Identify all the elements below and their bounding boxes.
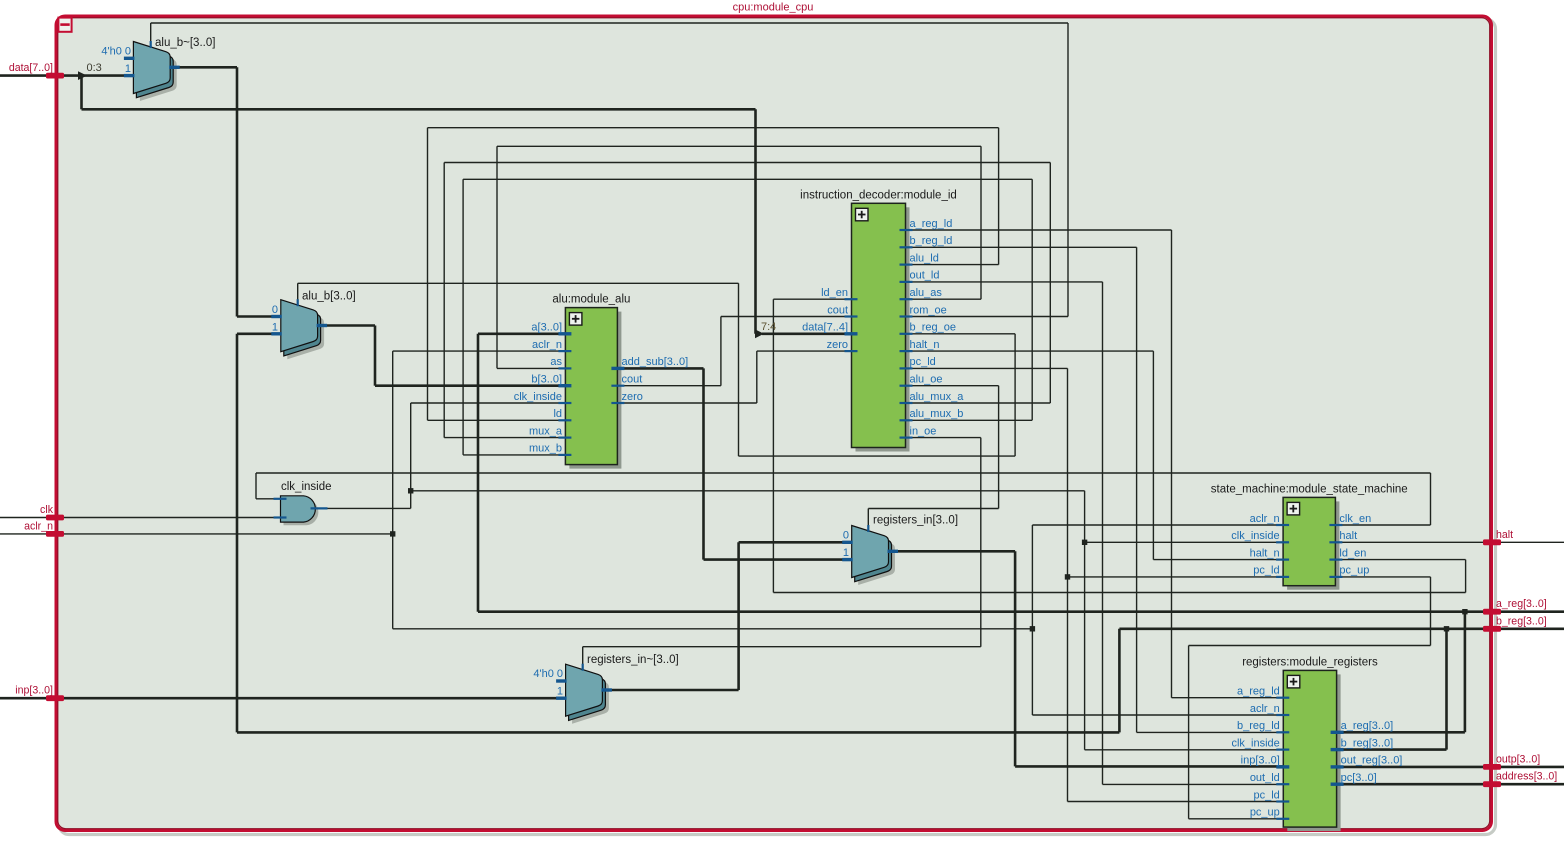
svg-text:clk: clk	[40, 504, 54, 516]
svg-text:b_reg[3..0]: b_reg[3..0]	[1341, 737, 1394, 749]
svg-text:0: 0	[272, 304, 278, 316]
junction a_reg port	[1462, 609, 1467, 614]
output port a_reg[3..0]	[1483, 609, 1501, 615]
collapse icon (minus box)	[58, 18, 71, 32]
svg-text:cout: cout	[827, 304, 848, 316]
wire clk_en : state_machine output feedback to clk_inside AND gate	[1335, 524, 1430, 526]
junction aclr_n at distribution column	[1030, 626, 1035, 631]
svg-text:aclr_n: aclr_n	[1250, 703, 1280, 715]
wire clk : input port to AND gate	[0, 517, 46, 519]
svg-text:a[3..0]: a[3..0]	[531, 322, 562, 334]
svg-text:out_ld: out_ld	[1250, 772, 1280, 784]
svg-text:1: 1	[125, 63, 131, 75]
svg-text:alu_mux_a: alu_mux_a	[910, 391, 965, 403]
svg-text:clk_inside: clk_inside	[514, 391, 562, 403]
module state_machine:module_state_machine	[1287, 501, 1339, 589]
svg-text:1: 1	[843, 547, 849, 559]
wire cout : ALU cout to decoder cout input	[617, 385, 721, 387]
svg-text:halt: halt	[1339, 530, 1357, 542]
pins of registers:module_registers	[1276, 697, 1289, 699]
svg-text:pc_ld: pc_ld	[1254, 789, 1280, 801]
junction clk_inside near gate	[408, 488, 413, 493]
wire b_reg[3..0] bus : registers output to alu_b mux input 1 and output port	[237, 332, 281, 335]
svg-text:aclr_n: aclr_n	[1250, 513, 1280, 525]
svg-text:1: 1	[557, 686, 563, 698]
wire ld_en : state_machine output to decoder ld_en input	[1335, 559, 1465, 561]
svg-text:b_reg_oe: b_reg_oe	[910, 322, 957, 334]
input port data[7..0]	[46, 73, 64, 79]
AND gate clk_inside	[284, 499, 319, 525]
svg-text:out_reg[3..0]: out_reg[3..0]	[1341, 755, 1403, 767]
arrow on data wire near port	[78, 71, 87, 80]
junction pc_ld	[1065, 574, 1070, 579]
svg-text:registers:module_registers: registers:module_registers	[1242, 656, 1378, 668]
svg-text:1: 1	[272, 321, 278, 333]
junction clk_inside near state_machine	[1082, 540, 1087, 545]
svg-text:outp[3..0]: outp[3..0]	[1496, 753, 1540, 765]
wire data[7..0] from port to alu_b~ mux and decoder	[0, 74, 46, 77]
svg-text:inp[3..0]: inp[3..0]	[15, 685, 53, 697]
svg-text:pc_up: pc_up	[1339, 565, 1369, 577]
wire address[3..0] : registers pc output to port	[1337, 783, 1483, 786]
svg-text:alu_oe: alu_oe	[910, 374, 943, 386]
svg-text:0: 0	[843, 530, 849, 542]
svg-text:a_reg_ld: a_reg_ld	[910, 218, 953, 230]
svg-text:registers_in~[3..0]: registers_in~[3..0]	[587, 654, 679, 666]
svg-text:as: as	[550, 356, 562, 368]
svg-text:halt_n: halt_n	[910, 339, 940, 351]
svg-text:a_reg[3..0]: a_reg[3..0]	[1496, 598, 1547, 610]
svg-text:alu_ld: alu_ld	[910, 252, 939, 264]
wire alu_as : decoder alu_as output to ALU as input	[906, 298, 982, 300]
wire b_reg_oe : decoder output to alu_b mux select	[906, 333, 1016, 335]
input port clk	[46, 515, 64, 521]
svg-text:b[3..0]: b[3..0]	[531, 374, 562, 386]
svg-text:data[7..4]: data[7..4]	[802, 322, 848, 334]
svg-text:b_reg[3..0]: b_reg[3..0]	[1496, 615, 1547, 627]
svg-text:alu_b~[3..0]: alu_b~[3..0]	[155, 37, 215, 49]
wire alu_mux_b : decoder output to ALU mux_b input	[906, 419, 1033, 421]
wire pc_ld : decoder output to state_machine and registers pc_ld inputs	[906, 367, 1068, 369]
svg-text:zero: zero	[622, 391, 643, 403]
wire registers_in~[3..0] output bus to registers_in mux input 0	[609, 689, 738, 692]
svg-text:pc_ld: pc_ld	[910, 356, 936, 368]
module instruction_decoder:module_id	[856, 207, 910, 451]
junction b_reg port	[1444, 626, 1449, 631]
svg-text:registers_in[3..0]: registers_in[3..0]	[873, 515, 958, 527]
arrow on data[7..4] wire at decoder	[755, 329, 764, 338]
svg-text:b_reg_ld: b_reg_ld	[1237, 720, 1280, 732]
pins of instruction_decoder:module_id	[900, 229, 913, 231]
mux alu_b[3..0]	[287, 307, 324, 359]
svg-text:ld_en: ld_en	[1339, 547, 1366, 559]
svg-text:alu_as: alu_as	[910, 287, 943, 299]
module alu:module_alu	[569, 312, 621, 469]
svg-text:state_machine:module_state_mac: state_machine:module_state_machine	[1211, 483, 1408, 495]
output port halt	[1483, 539, 1501, 545]
svg-text:clk_inside: clk_inside	[281, 481, 332, 493]
pins of state_machine:module_state_machine	[1276, 524, 1289, 526]
pins of alu:module_alu	[558, 332, 571, 335]
svg-text:4'h0 0: 4'h0 0	[101, 46, 131, 58]
svg-text:aclr_n: aclr_n	[24, 520, 53, 532]
svg-text:out_ld: out_ld	[910, 270, 940, 282]
svg-text:inp[3..0]: inp[3..0]	[1241, 755, 1280, 767]
output port b_reg[3..0]	[1483, 626, 1501, 632]
mux registers_in[3..0]	[858, 533, 895, 585]
module registers:module_registers	[1287, 674, 1340, 831]
mux registers_in~[3..0]	[572, 672, 609, 724]
svg-text:pc[3..0]: pc[3..0]	[1341, 772, 1377, 784]
wire zero : ALU zero to decoder zero input	[617, 402, 756, 404]
svg-text:zero: zero	[827, 339, 848, 351]
wire aclr_n : input port to ALU, state_machine and registers	[0, 533, 46, 535]
svg-text:rom_oe: rom_oe	[910, 304, 947, 316]
svg-text:cpu:module_cpu: cpu:module_cpu	[733, 2, 814, 14]
svg-text:clk_inside: clk_inside	[1231, 530, 1279, 542]
wire a_reg_ld : decoder output to registers a_reg_ld input	[906, 229, 1172, 231]
svg-text:pc_ld: pc_ld	[1253, 565, 1279, 577]
svg-text:pc_up: pc_up	[1250, 807, 1280, 819]
svg-text:mux_b: mux_b	[529, 443, 562, 455]
svg-text:instruction_decoder:module_id: instruction_decoder:module_id	[800, 189, 957, 201]
svg-text:aclr_n: aclr_n	[532, 339, 562, 351]
svg-text:ld_en: ld_en	[821, 287, 848, 299]
wire alu_b[3..0] output bus to ALU b input	[318, 324, 376, 327]
svg-text:halt: halt	[1496, 529, 1513, 541]
wire add_sub[3..0] : ALU output to registers_in mux input 1	[617, 367, 703, 370]
svg-text:clk_en: clk_en	[1339, 513, 1371, 525]
wire a_reg[3..0] bus : registers output to ALU a input and output port	[1337, 731, 1465, 734]
mux alu_b~[3..0]	[140, 49, 177, 101]
svg-text:b_reg_ld: b_reg_ld	[910, 235, 953, 247]
wire b_reg_ld : decoder output to registers b_reg_ld input	[906, 246, 1137, 248]
wire outp[3..0] : registers out_reg output to port	[1337, 766, 1483, 769]
svg-text:address[3..0]: address[3..0]	[1496, 771, 1557, 783]
wire clk_inside : gate output to ALU, state_machine and registers clk_inside inputs	[327, 507, 411, 509]
wire halt : state_machine output to halt port	[1335, 541, 1483, 543]
svg-text:alu_mux_b: alu_mux_b	[910, 408, 964, 420]
input port aclr_n	[46, 531, 64, 537]
svg-text:cout: cout	[622, 374, 643, 386]
wire alu_oe : decoder output to registers_in mux select	[906, 385, 999, 387]
wire rom_oe : decoder rom_oe output to alu_b~ mux select	[906, 316, 1069, 318]
svg-text:a_reg[3..0]: a_reg[3..0]	[1341, 720, 1394, 732]
junction aclr_n at port rail	[390, 531, 395, 536]
wire in_oe : decoder output to registers_in~ mux select	[906, 437, 981, 439]
svg-text:ld: ld	[553, 408, 562, 420]
output port address[3..0]	[1483, 781, 1501, 787]
svg-text:halt_n: halt_n	[1250, 547, 1280, 559]
svg-text:alu_b[3..0]: alu_b[3..0]	[302, 291, 356, 303]
svg-text:0:3: 0:3	[87, 62, 102, 74]
wire alu_ld : decoder alu_ld output to ALU ld input	[906, 264, 999, 266]
wire alu_b~[3..0] output bus to alu_b mux input 0	[170, 66, 238, 69]
svg-text:data[7..0]: data[7..0]	[9, 62, 53, 74]
svg-text:7:4: 7:4	[761, 321, 776, 333]
svg-text:clk_inside: clk_inside	[1231, 737, 1279, 749]
svg-text:a_reg_ld: a_reg_ld	[1237, 686, 1280, 698]
output port outp[3..0]	[1483, 764, 1501, 770]
wire inp[3..0] : input port to registers_in~ mux input 1	[0, 697, 46, 700]
svg-text:alu:module_alu: alu:module_alu	[552, 294, 630, 306]
wire alu_mux_a : decoder output to ALU mux_a input	[906, 402, 1051, 404]
svg-text:4'h0 0: 4'h0 0	[533, 668, 563, 680]
wire out_ld : decoder output to registers out_ld input	[906, 281, 1103, 283]
wire pc_up : state_machine output to registers pc_up input	[1335, 576, 1430, 578]
svg-text:add_sub[3..0]: add_sub[3..0]	[622, 356, 689, 368]
wire halt_n : decoder output to state_machine halt_n input	[906, 350, 1154, 352]
svg-text:in_oe: in_oe	[910, 425, 937, 437]
wire registers_in[3..0] output bus to registers inp input	[888, 550, 1015, 553]
svg-text:mux_a: mux_a	[529, 425, 563, 437]
input port inp[3..0]	[46, 695, 64, 701]
